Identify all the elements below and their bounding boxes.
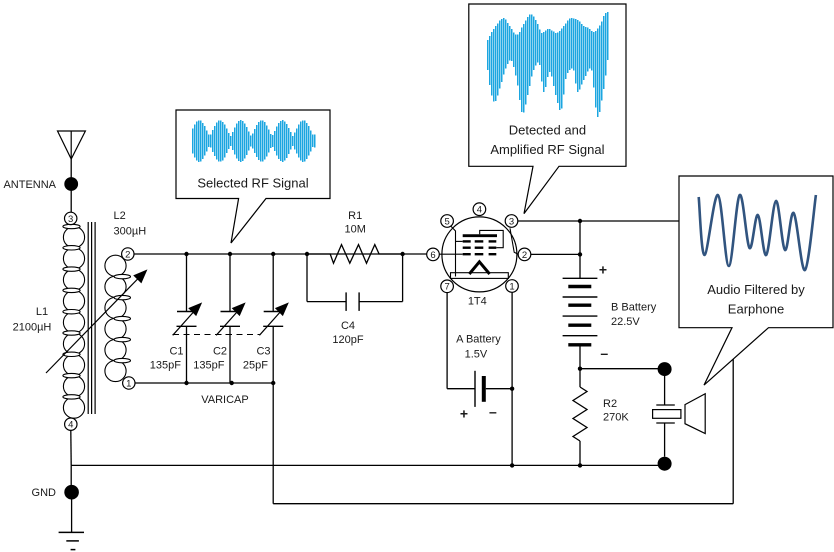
- svg-text:Selected RF Signal: Selected RF Signal: [197, 176, 308, 191]
- svg-text:C1: C1: [169, 346, 183, 358]
- svg-text:R1: R1: [348, 210, 362, 222]
- svg-text:6: 6: [430, 250, 435, 261]
- svg-text:10M: 10M: [344, 224, 365, 236]
- svg-text:2: 2: [125, 249, 130, 260]
- svg-text:L1: L1: [36, 306, 48, 318]
- svg-text:Amplified RF Signal: Amplified RF Signal: [490, 142, 604, 157]
- svg-text:22.5V: 22.5V: [611, 316, 640, 328]
- svg-text:25pF: 25pF: [243, 359, 268, 371]
- svg-text:3: 3: [68, 214, 73, 225]
- svg-text:3: 3: [509, 216, 514, 227]
- svg-text:120pF: 120pF: [332, 334, 363, 346]
- svg-text:4: 4: [477, 205, 482, 216]
- svg-text:Audio Filtered by: Audio Filtered by: [707, 282, 805, 297]
- svg-text:135pF: 135pF: [193, 359, 224, 371]
- svg-text:2: 2: [522, 250, 527, 261]
- svg-text:270K: 270K: [603, 412, 629, 424]
- svg-text:GND: GND: [32, 487, 57, 499]
- svg-text:+: +: [460, 406, 468, 422]
- svg-text:1: 1: [509, 281, 514, 292]
- svg-text:5: 5: [444, 216, 449, 227]
- svg-text:A Battery: A Battery: [456, 334, 501, 346]
- svg-text:C3: C3: [256, 346, 270, 358]
- svg-text:C4: C4: [341, 320, 355, 332]
- svg-text:1.5V: 1.5V: [465, 349, 488, 361]
- svg-text:+: +: [599, 262, 607, 278]
- svg-text:7: 7: [444, 282, 449, 293]
- svg-text:–: –: [600, 345, 608, 361]
- svg-text:135pF: 135pF: [150, 359, 181, 371]
- svg-text:1: 1: [126, 378, 131, 389]
- svg-text:VARICAP: VARICAP: [201, 394, 248, 406]
- svg-text:Earphone: Earphone: [728, 302, 784, 317]
- svg-text:C2: C2: [213, 346, 227, 358]
- svg-text:–: –: [489, 404, 497, 420]
- svg-text:2100µH: 2100µH: [13, 322, 52, 334]
- svg-text:300µH: 300µH: [114, 226, 147, 238]
- svg-text:4: 4: [68, 420, 73, 431]
- svg-text:Detected and: Detected and: [509, 123, 586, 138]
- svg-text:ANTENNA: ANTENNA: [3, 179, 56, 191]
- svg-text:B Battery: B Battery: [611, 302, 657, 314]
- svg-text:L2: L2: [114, 210, 126, 222]
- svg-text:R2: R2: [603, 398, 617, 410]
- svg-text:1T4: 1T4: [468, 296, 487, 308]
